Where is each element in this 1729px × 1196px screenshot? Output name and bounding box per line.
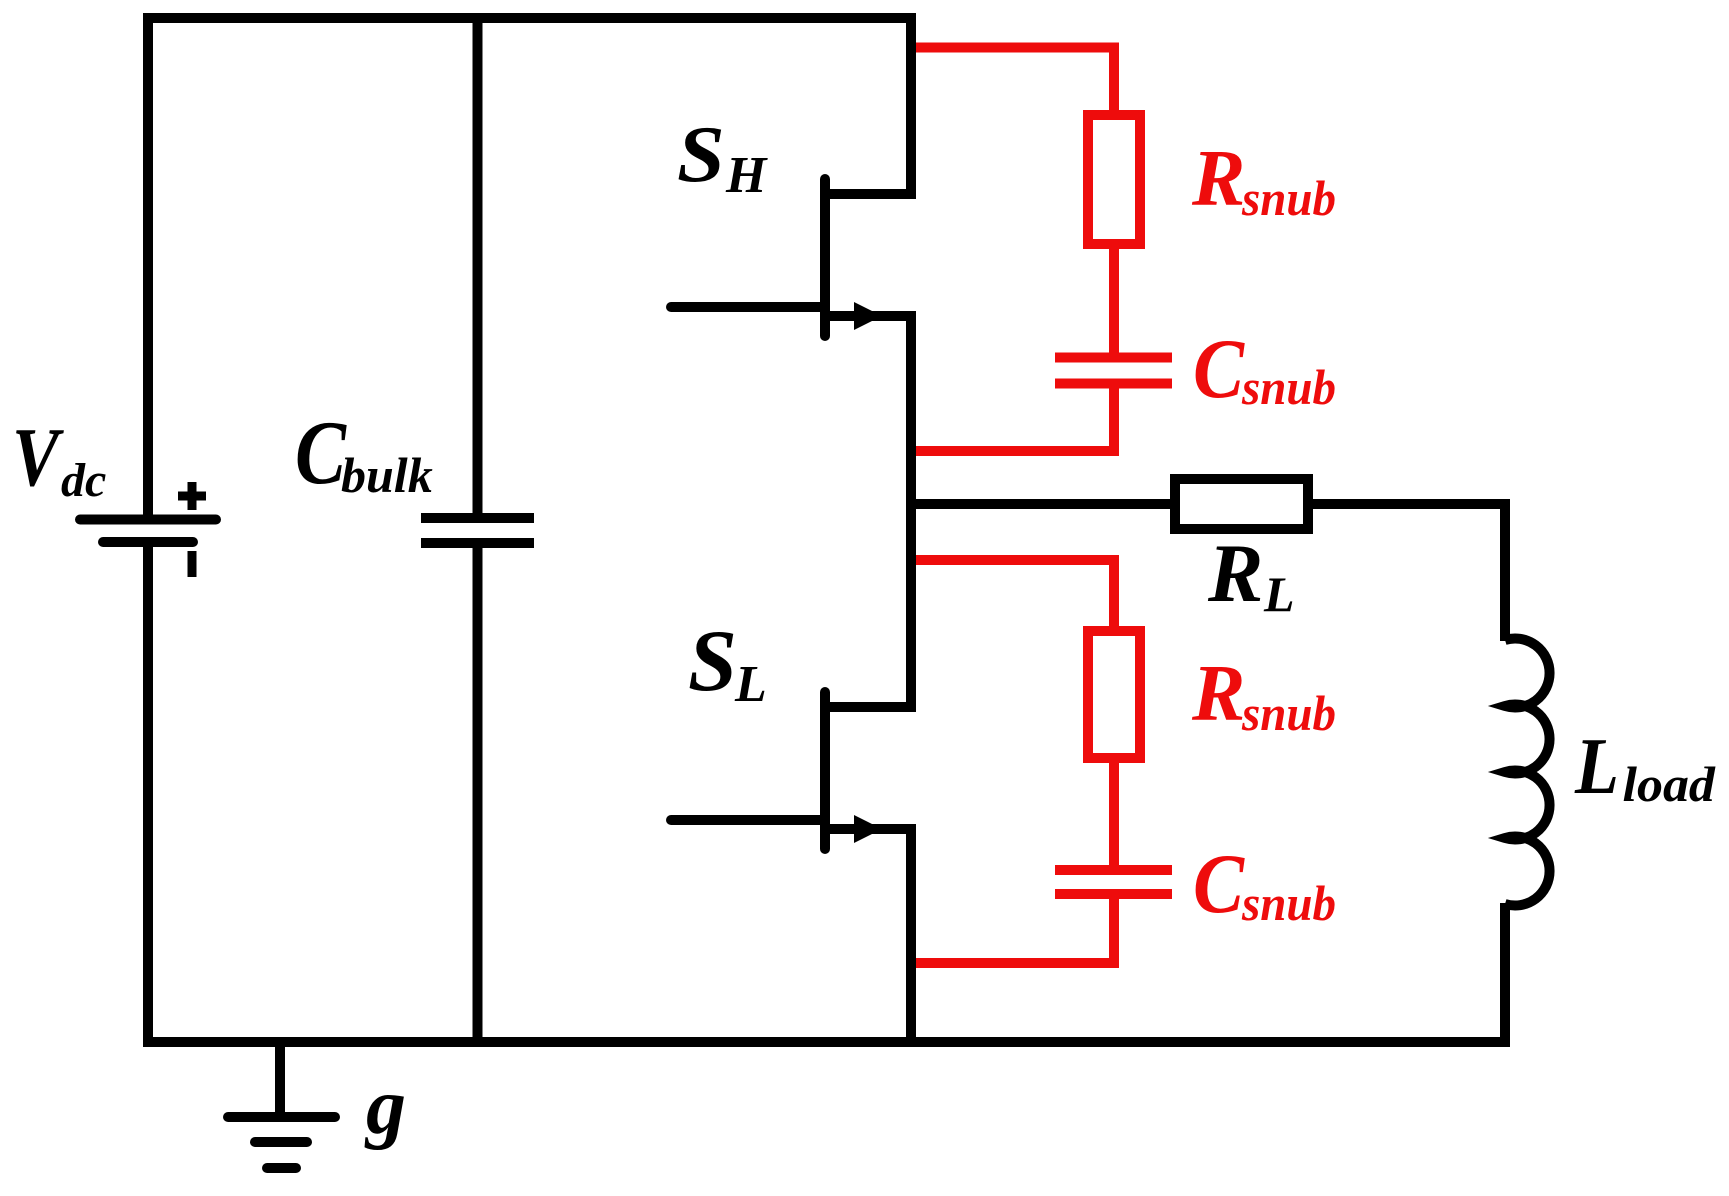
label Cbulk	[295, 403, 433, 504]
snubber lower wires	[916, 560, 1114, 963]
svg-text:S: S	[677, 110, 725, 199]
capacitor Csnub lower	[1055, 870, 1172, 894]
svg-text:L: L	[1263, 566, 1295, 622]
svg-text:L: L	[734, 656, 767, 713]
label Rsnub lower	[1191, 650, 1336, 741]
label Vdc	[12, 410, 106, 507]
svg-text:R: R	[1207, 527, 1263, 619]
wire bottom rail	[143, 1037, 1510, 1047]
label Csnub lower	[1193, 837, 1336, 931]
svg-text:dc: dc	[61, 454, 106, 507]
svg-text:V: V	[12, 410, 64, 503]
resistor Rsnub upper	[1088, 115, 1140, 244]
wire midpoint vertical (node between SH source and SL drain)	[906, 311, 916, 712]
wire RL to right vertical	[1308, 499, 1510, 509]
svg-text:R: R	[1191, 135, 1245, 223]
wire right vertical above Lload	[1500, 499, 1510, 641]
svg-text:C: C	[1193, 837, 1245, 931]
inductor Lload	[1505, 639, 1550, 906]
wire Cbulk vertical top	[473, 13, 483, 518]
wire Cbulk vertical bottom	[473, 543, 483, 1047]
svg-text:snub: snub	[1241, 361, 1336, 416]
svg-text:load: load	[1623, 758, 1717, 813]
wire left vertical bottom (Vdc branch)	[143, 544, 153, 1047]
svg-text:H: H	[725, 147, 768, 204]
resistor RL	[1175, 479, 1308, 529]
svg-text:snub: snub	[1241, 687, 1336, 742]
svg-text:R: R	[1191, 650, 1245, 738]
wire SH drain horizontal	[825, 189, 916, 199]
wire SH drain vertical	[906, 13, 916, 199]
svg-text:C: C	[295, 403, 347, 504]
battery Vdc	[80, 482, 216, 577]
label Csnub upper	[1193, 322, 1336, 416]
capacitor Cbulk	[421, 518, 534, 543]
svg-text:snub: snub	[1241, 172, 1336, 227]
wire left vertical top (Vdc branch)	[143, 13, 153, 517]
arrow SH source	[854, 302, 882, 330]
snubber upper wires	[916, 48, 1114, 452]
label SH	[677, 110, 768, 204]
wire output node to RL	[906, 499, 1175, 509]
svg-text:bulk: bulk	[341, 447, 433, 503]
svg-text:snub: snub	[1241, 877, 1336, 932]
label SL	[688, 613, 767, 713]
label RL	[1207, 527, 1295, 622]
transistor SL	[671, 692, 916, 849]
label Lload	[1574, 723, 1716, 813]
transistor SH	[671, 179, 916, 336]
wire ground stem	[275, 1042, 285, 1117]
svg-text:g: g	[364, 1063, 406, 1151]
wire right vertical below Lload	[1500, 903, 1510, 1047]
svg-text:C: C	[1193, 322, 1245, 416]
resistor Rsnub lower	[1088, 631, 1140, 758]
svg-text:S: S	[688, 613, 737, 710]
capacitor Csnub upper	[1055, 358, 1172, 384]
svg-text:L: L	[1574, 723, 1619, 811]
ground g	[228, 1117, 335, 1168]
label Rsnub upper	[1191, 135, 1336, 226]
wire top rail	[143, 13, 916, 23]
wire SL source vertical	[906, 824, 916, 1047]
arrow SL source	[854, 815, 882, 843]
